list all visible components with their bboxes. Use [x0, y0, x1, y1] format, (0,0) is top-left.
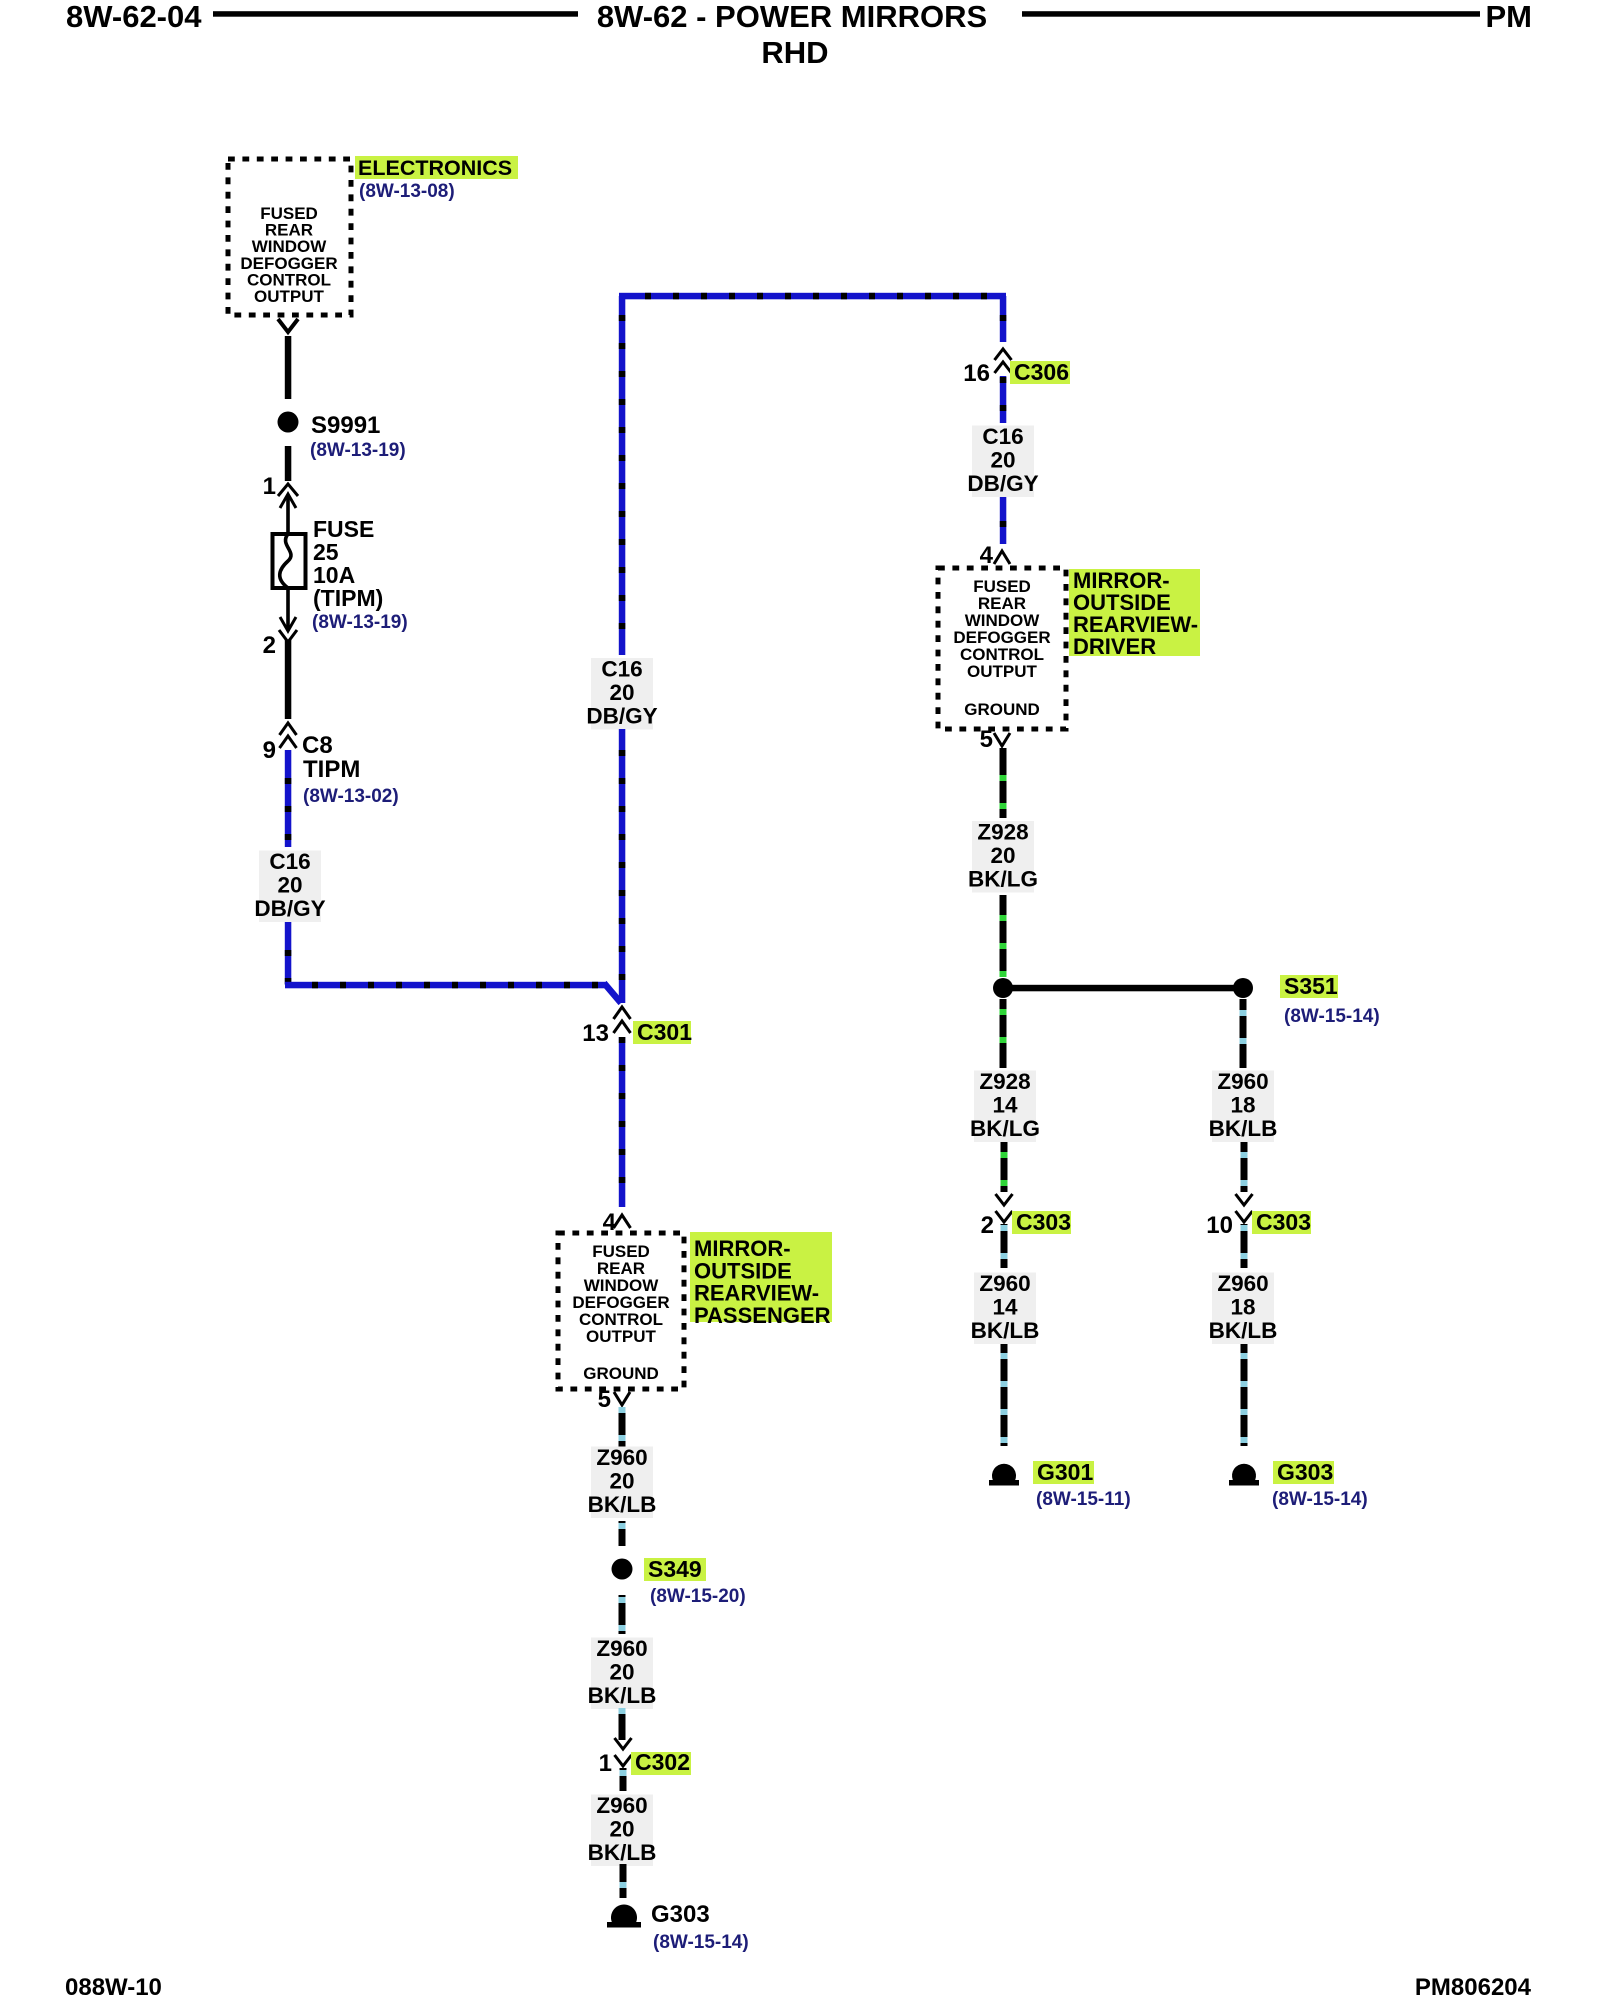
svg-text:ELECTRONICS: ELECTRONICS — [358, 156, 512, 180]
svg-text:RHD: RHD — [761, 35, 828, 70]
svg-text:S349: S349 — [648, 1556, 702, 1582]
svg-text:20: 20 — [609, 680, 634, 705]
svg-text:BK/LB: BK/LB — [971, 1318, 1040, 1343]
svg-text:BK/LB: BK/LB — [588, 1683, 657, 1708]
svg-text:C303: C303 — [1016, 1209, 1071, 1235]
svg-text:G303: G303 — [1277, 1459, 1333, 1485]
svg-text:C16: C16 — [982, 424, 1023, 449]
svg-text:(8W-13-19): (8W-13-19) — [312, 612, 408, 633]
svg-text:BK/LB: BK/LB — [1209, 1318, 1278, 1343]
svg-text:C16: C16 — [601, 657, 642, 682]
svg-text:1: 1 — [599, 1750, 612, 1777]
svg-text:14: 14 — [992, 1093, 1018, 1118]
svg-text:GROUND: GROUND — [583, 1364, 659, 1383]
svg-text:OUTPUT: OUTPUT — [967, 662, 1038, 681]
svg-text:Z960: Z960 — [1217, 1271, 1268, 1296]
svg-text:20: 20 — [277, 873, 302, 898]
svg-text:REARVIEW-: REARVIEW- — [694, 1281, 819, 1306]
svg-text:16: 16 — [963, 360, 990, 387]
svg-text:C303: C303 — [1256, 1209, 1311, 1235]
svg-text:14: 14 — [992, 1295, 1018, 1320]
svg-text:20: 20 — [609, 1817, 634, 1842]
svg-text:(8W-13-08): (8W-13-08) — [359, 181, 455, 202]
svg-text:MIRROR-: MIRROR- — [694, 1236, 791, 1261]
svg-text:13: 13 — [582, 1020, 609, 1047]
svg-text:GROUND: GROUND — [964, 700, 1040, 719]
svg-text:(8W-15-20): (8W-15-20) — [650, 1586, 746, 1607]
svg-text:Z928: Z928 — [977, 820, 1028, 845]
svg-text:Z960: Z960 — [979, 1271, 1030, 1296]
svg-text:Z960: Z960 — [1217, 1069, 1268, 1094]
svg-text:20: 20 — [990, 843, 1015, 868]
svg-text:Z960: Z960 — [596, 1445, 647, 1470]
svg-text:9: 9 — [263, 737, 276, 764]
svg-text:8W-62 - POWER MIRRORS: 8W-62 - POWER MIRRORS — [597, 0, 987, 34]
svg-text:18: 18 — [1230, 1093, 1255, 1118]
svg-text:PM806204: PM806204 — [1415, 1974, 1532, 2000]
svg-text:DB/GY: DB/GY — [967, 471, 1038, 496]
svg-text:BK/LG: BK/LG — [968, 867, 1038, 892]
svg-text:(8W-15-11): (8W-15-11) — [1036, 1489, 1131, 1510]
svg-text:S9991: S9991 — [311, 412, 380, 439]
svg-text:10: 10 — [1206, 1212, 1233, 1239]
svg-text:G301: G301 — [1037, 1459, 1093, 1485]
svg-text:(TIPM): (TIPM) — [313, 585, 383, 611]
svg-text:C8: C8 — [302, 732, 333, 759]
svg-text:BK/LG: BK/LG — [970, 1116, 1040, 1141]
svg-text:5: 5 — [598, 1386, 611, 1413]
svg-text:BK/LB: BK/LB — [588, 1840, 657, 1865]
svg-text:C302: C302 — [635, 1749, 690, 1775]
svg-text:OUTPUT: OUTPUT — [586, 1327, 657, 1346]
svg-text:BK/LB: BK/LB — [1209, 1116, 1278, 1141]
svg-text:C306: C306 — [1014, 359, 1069, 385]
svg-text:Z960: Z960 — [596, 1793, 647, 1818]
svg-text:1: 1 — [263, 473, 276, 500]
svg-text:(8W-15-14): (8W-15-14) — [1272, 1489, 1368, 1510]
svg-text:088W-10: 088W-10 — [65, 1974, 162, 2000]
svg-text:Z960: Z960 — [596, 1636, 647, 1661]
svg-text:C301: C301 — [637, 1019, 692, 1045]
svg-text:20: 20 — [990, 448, 1015, 473]
svg-text:S351: S351 — [1284, 973, 1338, 999]
svg-text:DRIVER: DRIVER — [1073, 634, 1156, 659]
svg-text:PM: PM — [1486, 0, 1533, 34]
svg-text:8W-62-04: 8W-62-04 — [66, 0, 202, 34]
svg-text:DB/GY: DB/GY — [586, 704, 657, 729]
svg-text:(8W-13-19): (8W-13-19) — [310, 440, 406, 461]
svg-text:PASSENGER: PASSENGER — [694, 1303, 831, 1328]
svg-text:DB/GY: DB/GY — [254, 896, 325, 921]
svg-text:(8W-15-14): (8W-15-14) — [653, 1932, 749, 1953]
svg-text:2: 2 — [981, 1212, 994, 1239]
svg-text:OUTSIDE: OUTSIDE — [694, 1258, 792, 1283]
svg-text:Z928: Z928 — [979, 1069, 1030, 1094]
svg-text:BK/LB: BK/LB — [588, 1492, 657, 1517]
svg-text:20: 20 — [609, 1660, 634, 1685]
svg-text:C16: C16 — [269, 849, 310, 874]
svg-text:5: 5 — [980, 726, 993, 753]
svg-text:20: 20 — [609, 1469, 634, 1494]
svg-text:2: 2 — [263, 632, 276, 659]
svg-text:(8W-13-02): (8W-13-02) — [303, 786, 399, 807]
svg-text:G303: G303 — [651, 1901, 710, 1928]
svg-text:4: 4 — [980, 542, 994, 569]
svg-text:TIPM: TIPM — [303, 756, 360, 783]
svg-text:(8W-15-14): (8W-15-14) — [1284, 1006, 1380, 1027]
svg-text:18: 18 — [1230, 1295, 1255, 1320]
svg-text:OUTPUT: OUTPUT — [254, 287, 325, 306]
